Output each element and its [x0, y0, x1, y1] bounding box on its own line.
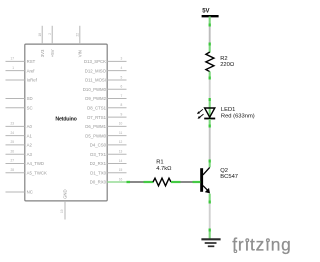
- pin D4_CS0 stub: [107, 144, 126, 146]
- fritzing logo i-dot ring 1: [246, 239, 249, 242]
- pin IoRef stub: [6, 79, 25, 81]
- wire D0_RX0 to R1 (gray body): [130, 181, 144, 183]
- pin RST stub: [6, 60, 25, 62]
- svg-text:NC: NC: [27, 190, 33, 195]
- wire end + resistor R1 left pin (green): [144, 181, 154, 183]
- wire end blob: [209, 43, 211, 46]
- pin D10_PWM0 stub: [107, 88, 126, 90]
- svg-text:VIN: VIN: [78, 50, 83, 57]
- pin D13_SPCK stub: [107, 60, 126, 62]
- resistor R2 bottom pin (green): [209, 72, 211, 77]
- svg-text:7: 7: [121, 94, 123, 98]
- LED1 cathode pin (green): [209, 119, 211, 125]
- svg-text:23: 23: [10, 122, 14, 126]
- svg-text:Aref: Aref: [27, 68, 36, 73]
- svg-text:GND: GND: [63, 189, 68, 199]
- pin +5V top stub: [51, 26, 53, 44]
- wire end blob: [127, 181, 131, 183]
- pin D11_MOSI stub: [107, 79, 126, 81]
- pin Aref stub: [6, 70, 25, 72]
- wire R2 to LED1 (gray body): [209, 80, 211, 99]
- pin D12_MISO stub: [107, 70, 126, 72]
- LED1 emission arrow 2: [198, 114, 204, 119]
- pin A5_TWCK stub: [6, 172, 25, 174]
- 5V power symbol bar: [202, 15, 219, 17]
- svg-text:D9_PWM2: D9_PWM2: [85, 96, 106, 101]
- svg-text:2: 2: [48, 33, 52, 35]
- pin GND bottom stub: [64, 201, 66, 220]
- svg-text:IoRef: IoRef: [27, 78, 38, 83]
- pin D5_PWM0 stub: [107, 135, 126, 137]
- wire end blob: [209, 24, 211, 27]
- svg-text:D0_RX0: D0_RX0: [90, 180, 107, 185]
- svg-text:10: 10: [119, 122, 123, 126]
- svg-text:D1_TX0: D1_TX0: [90, 170, 106, 175]
- Q2 collector pin (green): [209, 163, 211, 168]
- svg-text:3: 3: [121, 57, 123, 61]
- wire 5V to R2 (gray body): [209, 27, 211, 43]
- wire end blob: [209, 160, 211, 163]
- pin D7_RTS1 stub: [107, 116, 126, 118]
- svg-text:220Ω: 220Ω: [220, 62, 235, 68]
- IC U1 Netduino body: [25, 44, 107, 201]
- svg-text:18: 18: [38, 33, 42, 37]
- svg-text:frıtzıng: frıtzıng: [232, 235, 291, 255]
- svg-text:D5_PWM0: D5_PWM0: [85, 133, 106, 138]
- wire R1 to Q2 base (gray body): [181, 181, 193, 183]
- pin A4_TWD stub: [6, 162, 25, 164]
- ground pin (green): [209, 232, 211, 239]
- svg-text:26: 26: [10, 149, 14, 153]
- svg-text:+5V: +5V: [50, 49, 55, 57]
- svg-text:25: 25: [10, 140, 14, 144]
- svg-text:9: 9: [121, 112, 123, 116]
- svg-text:A0: A0: [27, 124, 33, 129]
- pin D0_RX0 stub (connected, green): [107, 181, 126, 183]
- pin SC stub: [6, 107, 25, 109]
- svg-text:16: 16: [119, 177, 123, 181]
- svg-text:D3_TX1: D3_TX1: [90, 152, 106, 157]
- svg-text:17: 17: [10, 57, 14, 61]
- svg-text:24: 24: [10, 131, 14, 135]
- pin A0 stub: [6, 125, 25, 127]
- svg-text:LED1: LED1: [221, 107, 236, 113]
- LED1 anode pin (green, runs through symbol): [209, 101, 211, 118]
- LED1 triangle: [205, 108, 215, 117]
- svg-text:BC547: BC547: [220, 174, 238, 180]
- svg-text:Red (633nm): Red (633nm): [221, 114, 255, 120]
- svg-text:14: 14: [119, 159, 123, 163]
- wire end + Q2 base pin (green): [193, 181, 201, 183]
- svg-text:Q2: Q2: [220, 168, 228, 174]
- svg-text:D8_CTS1: D8_CTS1: [87, 106, 106, 111]
- svg-text:D4_CS0: D4_CS0: [90, 143, 107, 148]
- svg-text:D7_RTS1: D7_RTS1: [87, 115, 106, 120]
- svg-text:13: 13: [119, 150, 123, 154]
- wire end blob: [209, 201, 211, 204]
- svg-text:3V3: 3V3: [40, 49, 45, 57]
- resistor R1 zigzag: [153, 178, 171, 186]
- pin NC stub: [6, 191, 25, 193]
- transistor Q2 base bar: [200, 168, 203, 192]
- svg-text:5: 5: [121, 75, 123, 79]
- svg-text:4.7kΩ: 4.7kΩ: [156, 166, 172, 172]
- svg-text:A1: A1: [27, 133, 33, 138]
- svg-text:4: 4: [121, 66, 123, 70]
- svg-text:11: 11: [119, 131, 123, 135]
- wire end blob: [209, 77, 211, 80]
- pin D3_TX1 stub: [107, 153, 126, 155]
- wire emitter to ground (gray body): [209, 204, 211, 229]
- svg-text:D6_PWM1: D6_PWM1: [85, 124, 106, 129]
- svg-text:D13_SPCK: D13_SPCK: [84, 59, 106, 64]
- svg-text:27: 27: [10, 159, 14, 163]
- transistor Q2 collector lead: [203, 167, 210, 175]
- wire end blob: [209, 98, 211, 101]
- fritzing logo f-foot ring: [234, 250, 237, 253]
- svg-text:RST: RST: [27, 59, 36, 64]
- resistor R2 top pin (green): [209, 46, 211, 53]
- svg-text:D12_MISO: D12_MISO: [85, 68, 107, 73]
- svg-text:15: 15: [119, 168, 123, 172]
- svg-text:1: 1: [12, 66, 14, 70]
- pin A1 stub: [6, 135, 25, 137]
- svg-text:6: 6: [121, 85, 123, 89]
- LED1 emission arrow 1: [197, 109, 203, 114]
- svg-text:D2_RX1: D2_RX1: [90, 161, 107, 166]
- pin D9_PWM2 stub: [107, 98, 126, 100]
- svg-text:A3: A3: [27, 152, 33, 157]
- resistor R2 zigzag: [206, 52, 214, 72]
- svg-text:Netduino: Netduino: [55, 116, 77, 122]
- svg-text:A4_TWD: A4_TWD: [27, 161, 44, 166]
- transistor Q2 emitter arrow: [205, 188, 210, 194]
- pin D6_PWM1 stub: [107, 125, 126, 127]
- fritzing logo i-dot ring 2: [267, 239, 270, 242]
- svg-text:D11_MOSI: D11_MOSI: [85, 78, 106, 83]
- pin A2 stub: [6, 144, 25, 146]
- LED1 cathode bar: [204, 118, 215, 120]
- transistor Q2 emitter lead: [203, 186, 208, 191]
- Q2 emitter pin (green): [209, 194, 211, 201]
- svg-text:R1: R1: [156, 160, 163, 166]
- svg-text:R2: R2: [220, 56, 227, 62]
- svg-text:SC: SC: [27, 106, 33, 111]
- 5V pin (green): [209, 17, 211, 24]
- svg-text:22: 22: [75, 33, 79, 37]
- pin D1_TX0 stub: [107, 172, 126, 174]
- svg-text:5V: 5V: [202, 9, 209, 15]
- svg-text:A5_TWCK: A5_TWCK: [27, 170, 47, 175]
- pin VIN top stub: [79, 26, 81, 44]
- svg-text:28: 28: [10, 168, 14, 172]
- pin D2_RX1 stub: [107, 162, 126, 164]
- svg-text:19: 19: [60, 209, 64, 213]
- pin 3V3 top stub: [41, 26, 43, 44]
- pin D8_CTS1 stub: [107, 107, 126, 109]
- wire end blob: [209, 125, 211, 128]
- pin SD stub: [6, 98, 25, 100]
- wire LED1 to Q2 (gray body): [209, 128, 211, 160]
- svg-text:SD: SD: [27, 96, 33, 101]
- svg-text:D10_PWM0: D10_PWM0: [83, 87, 107, 92]
- svg-text:12: 12: [119, 140, 123, 144]
- svg-text:8: 8: [121, 103, 123, 107]
- resistor R1 right pin + wire end (green): [171, 181, 181, 183]
- pin A3 stub: [6, 153, 25, 155]
- svg-text:A2: A2: [27, 143, 33, 148]
- ground symbol: [201, 239, 220, 246]
- wire end blob: [209, 229, 211, 232]
